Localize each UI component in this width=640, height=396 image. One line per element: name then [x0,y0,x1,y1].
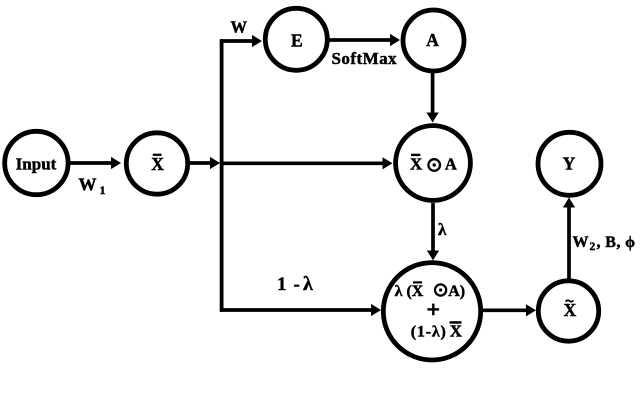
svg-text:W: W [79,175,97,195]
node A [403,10,464,71]
svg-text:X: X [450,322,463,341]
node Xtilde [538,281,598,341]
node lambda-combine [383,263,480,360]
node XdotA [396,126,471,201]
wire XdotA to lambda circle [427,203,439,261]
node Xbar [126,133,187,194]
svg-text:Input: Input [16,155,57,174]
wire Xbar to branch junction [188,157,220,169]
node Input [5,131,68,194]
svg-text:1: 1 [100,183,106,197]
svg-text:, B, ϕ: , B, ϕ [597,234,636,251]
svg-text:λ: λ [438,220,447,239]
node E [265,8,327,70]
svg-text:λ: λ [303,273,313,295]
wire branch to lambda circle (bottom) [220,304,381,316]
svg-text:1: 1 [277,274,287,295]
svg-text:X: X [410,154,423,173]
svg-text:(1-λ): (1-λ) [411,324,447,341]
svg-text:A: A [426,30,439,50]
svg-text:2: 2 [590,241,596,253]
svg-text:-: - [294,274,300,295]
wire lambda circle to Xtilde [483,304,536,316]
wire vertical branch line [220,39,224,312]
svg-text:E: E [291,31,303,51]
svg-text:A): A) [448,283,465,300]
node Y [538,132,601,195]
svg-text:SoftMax: SoftMax [332,49,398,68]
wire E to A [329,34,400,46]
wire Input to Xbar [69,157,121,169]
label W2 B phi [573,234,636,253]
label W1 [79,175,106,198]
wire branch to E [220,35,262,47]
svg-text:W: W [231,18,248,37]
wire Xtilde to Y [563,198,575,280]
svg-text:W: W [573,234,589,251]
svg-text:Y: Y [563,154,576,174]
svg-text:X: X [151,154,164,174]
svg-text:A: A [445,154,457,173]
svg-text:λ (X: λ (X [395,283,424,300]
svg-text:X: X [564,300,577,320]
wire branch to XdotA (middle) [222,157,393,169]
wire A to XdotA [427,72,439,123]
